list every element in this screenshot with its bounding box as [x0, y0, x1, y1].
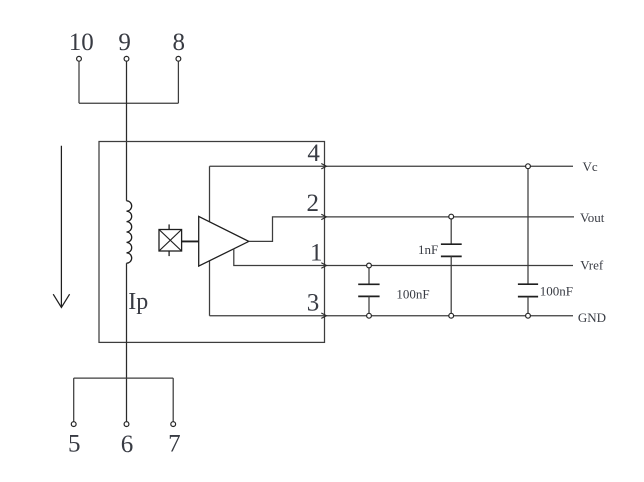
pin 7 terminal circle — [171, 422, 176, 427]
hall element X diagonal 1 — [159, 230, 182, 252]
inductor primary winding — [127, 201, 132, 263]
pin 2 junction arrow — [321, 214, 326, 219]
arrow Ip direction — [60, 146, 62, 307]
capacitor C1 1nF body — [450, 219, 452, 244]
C1 top junction circle — [449, 214, 454, 219]
wire primary conductor upper — [126, 61, 128, 201]
svg-text:1: 1 — [310, 240, 323, 267]
hall element top stub — [168, 224, 170, 229]
wire amplifier output step to pin 2 — [249, 217, 325, 242]
pin 3 junction arrow — [321, 313, 326, 318]
svg-text:Ip: Ip — [128, 289, 148, 315]
svg-text:10: 10 — [69, 29, 94, 56]
svg-text:4: 4 — [307, 140, 320, 167]
wire pin 4 / Vc line — [210, 165, 574, 167]
svg-text:1nF: 1nF — [418, 242, 438, 257]
wire pin7 drop — [172, 378, 174, 422]
C1 bottom junction circle — [449, 313, 454, 318]
pin 4 junction arrow — [321, 164, 326, 169]
pin 5 terminal circle — [71, 422, 76, 427]
wire pin8 drop — [177, 61, 179, 103]
hall element bottom stub — [168, 251, 170, 256]
svg-text:100nF: 100nF — [396, 286, 429, 301]
hall element square — [159, 230, 182, 252]
capacitor C2 100nF body — [368, 268, 370, 284]
op-amp amplifier triangle — [199, 216, 249, 266]
svg-text:Vref: Vref — [580, 257, 604, 272]
C2 bottom junction circle — [367, 313, 372, 318]
pin 9 terminal circle — [124, 56, 129, 61]
svg-text:5: 5 — [68, 430, 81, 457]
wire Vref line — [325, 265, 574, 267]
C3 top junction circle — [526, 164, 531, 169]
outer box (transducer body) — [99, 142, 325, 343]
wire Vout line — [325, 216, 575, 218]
wire pin 3 / GND line — [210, 315, 574, 317]
svg-text:100nF: 100nF — [540, 283, 573, 298]
C2 top junction circle — [367, 263, 372, 268]
svg-text:6: 6 — [121, 431, 134, 458]
wire feedback tap to pin 1 — [234, 249, 325, 266]
wire bottom bracket — [74, 377, 174, 379]
wire pin10 drop — [78, 61, 80, 103]
svg-text:2: 2 — [306, 190, 319, 217]
hall element X diagonal 2 — [159, 230, 182, 252]
pin 10 terminal circle — [77, 56, 82, 61]
wire primary conductor lower — [126, 263, 128, 422]
pin 6 terminal circle — [124, 422, 129, 427]
svg-text:9: 9 — [118, 29, 131, 56]
wire pin5 drop — [73, 378, 75, 422]
capacitor C3 100nF body — [527, 169, 529, 285]
svg-text:Vc: Vc — [583, 159, 598, 174]
pin 1 junction arrow — [321, 263, 326, 268]
svg-text:3: 3 — [307, 289, 320, 316]
svg-text:Vout: Vout — [580, 210, 605, 225]
inner box (ASIC) left edge — [209, 166, 211, 316]
svg-text:8: 8 — [173, 29, 186, 56]
svg-text:7: 7 — [168, 430, 181, 457]
wire top bracket — [79, 102, 178, 104]
pin 8 terminal circle — [176, 56, 181, 61]
svg-text:GND: GND — [578, 310, 606, 325]
wire hall to amplifier — [182, 240, 199, 242]
C3 bottom junction circle — [526, 313, 531, 318]
